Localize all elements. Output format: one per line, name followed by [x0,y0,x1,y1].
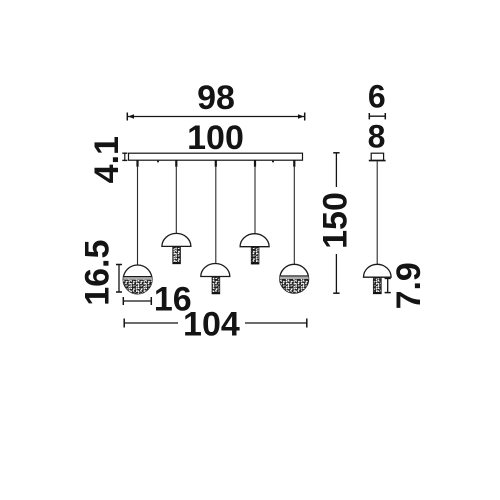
dimension text 6 [368,79,386,115]
single-pendant suspension cord [376,161,378,264]
svg-text:100: 100 [187,119,244,157]
svg-text:6: 6 [368,79,386,115]
svg-text:150: 150 [317,192,355,249]
dimension line 16.5 [116,265,122,293]
dimension line 6 [369,113,385,119]
svg-text:7.9: 7.9 [390,262,428,309]
dimension 7.9 rotated text [390,262,428,309]
single-pendant canopy box [369,153,386,160]
svg-text:98: 98 [197,79,235,117]
pendant dome P4 [240,234,269,264]
dimension line 150 [333,153,339,293]
svg-text:4.1: 4.1 [88,136,126,183]
pendant sphere P1 [122,265,154,295]
dimension 150 rotated text [317,192,355,249]
cord stub 1 [136,160,138,167]
cord stub 3 [215,160,217,167]
dimension line 104 [124,319,307,328]
svg-text:8: 8 [368,118,386,154]
dimension text 98 [197,79,235,117]
canopy bar [129,153,303,162]
dimension text 100 [187,119,244,157]
cord stub 5 [293,160,295,167]
suspension cord 2 [175,166,177,234]
dimension text 104 [183,305,240,343]
svg-text:104: 104 [183,305,240,343]
pendant dome P3 [201,264,230,294]
cord stub 4 [254,160,256,167]
pendant dome P2 [162,233,191,263]
dimension line 4.1 [122,153,127,160]
dimension line 98 [127,113,305,121]
suspension cord 4 [254,166,256,234]
dimension line 16 [123,297,151,305]
dimension line 7.9 [385,278,391,292]
cord stub 2 [175,160,177,167]
single-pendant dome [364,264,392,293]
suspension cord 5 [293,166,295,265]
suspension cord 1 [137,166,139,265]
pendant sphere P5 [279,264,311,294]
suspension cord 3 [215,166,217,264]
dimension text 8 [368,118,386,154]
dimension text 16 [154,281,192,319]
dimension 16.5 rotated text [79,240,117,306]
svg-text:16.5: 16.5 [79,240,117,306]
dimension 4.1 rotated text [88,136,126,183]
